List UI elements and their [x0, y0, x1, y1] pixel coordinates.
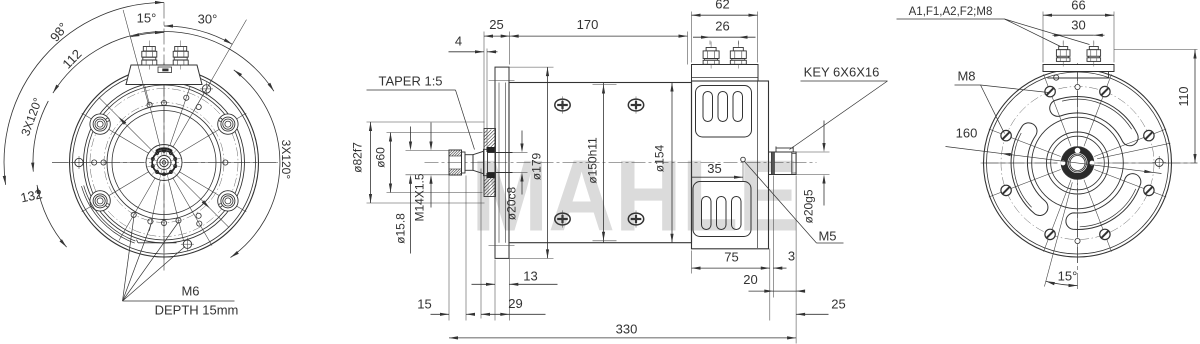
hub side notch right	[1090, 161, 1095, 166]
left view vertical centerline	[163, 3, 165, 271]
dim 25 right	[796, 313, 828, 315]
through-bolt bosses (4x)	[90, 114, 238, 211]
kidney slot top	[1050, 96, 1138, 145]
ext lines shaft dia	[406, 150, 449, 152]
dim 20	[749, 290, 774, 292]
shaft bore circle	[1069, 154, 1087, 172]
inner circle r27	[1051, 136, 1105, 190]
svg-text:TAPER 1:5: TAPER 1:5	[378, 74, 442, 89]
dim 4	[449, 51, 475, 53]
small holes right view	[1054, 75, 1081, 244]
extension lines bottom	[448, 176, 450, 321]
svg-text:ø20c8: ø20c8	[505, 187, 519, 221]
svg-text:ø154: ø154	[653, 145, 667, 173]
cross hole right horizontal	[1155, 159, 1163, 167]
M5 hole	[741, 157, 746, 162]
bracket slot mark	[162, 69, 168, 72]
left view terminal bracket	[126, 65, 202, 85]
shaft end chamfer band	[792, 154, 796, 174]
svg-text:M6: M6	[181, 284, 199, 299]
kidney top rib arc	[1062, 99, 1132, 129]
dim 15	[431, 313, 450, 315]
dimension arc 3X120 right	[231, 70, 280, 258]
dimension arc 15 deg	[130, 32, 164, 36]
dim dia20g5	[795, 151, 830, 153]
svg-text:330: 330	[616, 322, 638, 337]
ext lines 30	[1062, 41, 1064, 45]
svg-text:15°: 15°	[137, 11, 157, 26]
M8 leaders	[981, 85, 1005, 134]
right outer circle	[984, 69, 1172, 257]
bearing boss	[484, 129, 496, 197]
band extra arc outer	[82, 186, 135, 243]
svg-text:KEY 6X6X16: KEY 6X6X16	[804, 65, 880, 80]
terminal bolts (mid view)	[703, 42, 746, 69]
dim 110	[1114, 49, 1198, 51]
dim 26	[709, 41, 711, 45]
hub ring outline	[1061, 147, 1094, 180]
svg-text:26: 26	[715, 19, 729, 34]
svg-text:25: 25	[489, 17, 503, 32]
svg-text:15°: 15°	[1058, 269, 1078, 284]
middle view: motor side section	[351, 0, 1198, 344]
svg-text:ø60: ø60	[374, 147, 388, 168]
30 deg reference line	[194, 20, 247, 111]
bolt circle dash-dot left	[90, 89, 238, 237]
svg-text:170: 170	[577, 17, 599, 32]
hub inner white	[1069, 154, 1087, 172]
flange circle	[84, 82, 245, 243]
dim 330	[449, 337, 796, 339]
shaft through flange	[488, 152, 513, 154]
svg-text:M5: M5	[818, 229, 836, 244]
stator body outline	[509, 83, 692, 243]
svg-text:4: 4	[455, 34, 462, 49]
svg-text:A1,F1,A2,F2;M8: A1,F1,A2,F2;M8	[909, 6, 993, 18]
A1 underline	[897, 18, 1005, 20]
dim dia20c8	[521, 131, 523, 149]
shaft hex nut	[449, 150, 462, 175]
M5 leader	[745, 162, 817, 244]
dim dia82f7	[370, 122, 372, 203]
kidney left rib arc	[1014, 133, 1032, 207]
bearing black lower	[487, 173, 496, 178]
dim 30	[1053, 34, 1064, 36]
dim M14X1.5	[430, 123, 432, 142]
A1 leader to bolts	[1005, 19, 1061, 47]
hub knurled ring	[1065, 150, 1090, 175]
dim 13	[472, 283, 496, 285]
brush cover top slots	[703, 92, 743, 122]
M8 underline	[955, 84, 981, 86]
brush cover bottom slots	[702, 197, 742, 230]
dimension arc 30 deg	[164, 26, 232, 44]
dim 25 top	[484, 35, 510, 37]
bearing black upper	[487, 147, 496, 152]
svg-text:ø150h11: ø150h11	[586, 137, 600, 184]
shaft circle	[160, 158, 168, 166]
svg-text:35: 35	[707, 161, 721, 176]
nut facet lines	[449, 155, 462, 157]
hub outer circle	[146, 145, 182, 181]
middle horizontal centerline	[425, 162, 817, 164]
small holes on inner bolt circle	[92, 95, 228, 226]
key leader	[790, 81, 888, 150]
radial arrow lower-right	[202, 200, 210, 208]
svg-text:3: 3	[788, 249, 795, 264]
hole circle dash-dot left	[104, 103, 224, 223]
flange hole centerline bottom	[489, 245, 515, 247]
hub serrated ring	[152, 151, 176, 175]
dim dia15.8	[410, 127, 412, 142]
dimension arc 3X120 left	[33, 101, 48, 172]
right outer inner circle	[987, 72, 1169, 254]
terminal plate	[692, 65, 759, 82]
hub inner circle	[157, 156, 171, 170]
svg-text:ø82f7: ø82f7	[351, 142, 365, 173]
face inner circle	[112, 111, 216, 215]
svg-text:110: 110	[1177, 86, 1191, 106]
flange inner circle	[87, 85, 242, 240]
dim dia179	[510, 66, 554, 68]
ext lines dia20c8	[513, 152, 528, 154]
dimension arc 132	[37, 185, 67, 247]
key underline	[801, 80, 888, 82]
hub top dark segment	[156, 148, 172, 151]
extension lines top	[483, 32, 485, 149]
bolt circle dash-dot	[1001, 87, 1154, 240]
brush cover top	[696, 86, 752, 138]
taper underline	[367, 89, 456, 91]
svg-text:75: 75	[724, 250, 738, 265]
bracket slot	[158, 67, 172, 73]
right view horizontal centerline	[983, 162, 1198, 164]
M6 underline	[123, 300, 235, 302]
dia160 diameter line	[946, 147, 1162, 174]
right terminal bolt	[173, 41, 188, 70]
hub top notch	[1075, 148, 1081, 154]
output shaft	[769, 152, 797, 175]
M6 tapped holes with center cross (3x120)	[73, 82, 214, 250]
svg-text:ø20g5: ø20g5	[802, 189, 816, 223]
dimension arc 98 deg	[4, 3, 164, 185]
svg-text:13: 13	[523, 269, 537, 284]
svg-text:20: 20	[743, 272, 757, 287]
dim dia150h11	[603, 83, 605, 243]
shaft circlip	[771, 152, 774, 175]
M8 screws (8x)	[1001, 86, 1154, 239]
flange hole centerline top	[489, 80, 515, 82]
taper leader	[456, 90, 475, 150]
housing step line	[757, 81, 759, 248]
thread washer	[462, 152, 466, 173]
right view dimensions	[897, 0, 1198, 287]
dim 62	[692, 14, 758, 16]
dim 15 deg bottom	[1046, 281, 1078, 285]
threaded shaft section	[465, 155, 473, 171]
kidney slot left	[1011, 123, 1048, 216]
key end ticks	[775, 146, 777, 148]
svg-text:ø15.8: ø15.8	[394, 213, 408, 244]
bore inner circle	[1070, 156, 1085, 171]
hub serration bumps	[151, 149, 176, 176]
right view radial centerlines	[981, 63, 1198, 287]
svg-text:M14X1.5: M14X1.5	[413, 173, 427, 221]
MAHLE watermark	[471, 139, 800, 253]
left terminal bolt	[142, 41, 157, 70]
flange plate	[495, 67, 509, 258]
right view vertical centerline	[1077, 65, 1079, 292]
kidney bottom rib arc	[1080, 189, 1136, 227]
face circle	[107, 106, 221, 220]
band seam step	[137, 240, 139, 243]
M6 leader lines	[123, 216, 135, 301]
svg-text:MAHLE: MAHLE	[471, 139, 800, 253]
outer body circle	[70, 68, 259, 257]
shaft collar	[484, 149, 488, 175]
dimension arc 112	[53, 32, 274, 94]
dim dia154	[671, 83, 673, 243]
shaft key	[776, 148, 793, 152]
dim dia60	[390, 133, 392, 193]
outer body inner circle	[73, 71, 256, 254]
right terminal plate lower band	[1048, 72, 1109, 79]
middle view dimensions	[351, 0, 888, 344]
M5 underline	[817, 242, 844, 244]
svg-text:62: 62	[715, 0, 729, 12]
taper section	[473, 151, 484, 173]
svg-text:25: 25	[831, 297, 845, 312]
svg-text:DEPTH 15mm: DEPTH 15mm	[155, 303, 239, 318]
brush cover bottom	[693, 182, 751, 237]
radial arrow upper-left	[118, 117, 126, 125]
hub spokes	[147, 146, 181, 180]
svg-text:15: 15	[417, 297, 431, 312]
dim 66	[1043, 14, 1114, 16]
body screws	[555, 96, 644, 227]
svg-text:M8: M8	[957, 69, 975, 84]
left view horizontal centerline	[52, 162, 278, 164]
dim 75	[692, 267, 770, 269]
kidney slot bottom	[1066, 174, 1141, 230]
dim 29	[481, 313, 509, 315]
left view radial centerlines	[52, 63, 278, 263]
band extra arc inner	[84, 186, 136, 242]
15 deg reference line	[123, 10, 148, 105]
dim 35	[742, 162, 744, 182]
flange inner edge lines	[498, 83, 500, 243]
dim 3	[773, 267, 786, 269]
left view: motor end elevation	[52, 3, 278, 271]
right terminal plate	[1043, 65, 1114, 72]
dim 170	[510, 35, 688, 37]
inner circle r31	[1047, 132, 1109, 194]
band seam chord	[138, 242, 177, 244]
ext lines 66	[1042, 12, 1044, 63]
svg-text:30°: 30°	[198, 12, 218, 27]
shaft center hole	[162, 161, 166, 165]
hub side notch left	[1061, 161, 1066, 166]
brush end housing	[692, 81, 769, 249]
right terminal bolts	[1056, 42, 1100, 67]
svg-text:ø179: ø179	[530, 153, 544, 181]
svg-text:29: 29	[508, 296, 522, 311]
svg-text:3X120°: 3X120°	[279, 140, 293, 180]
shaft end ring	[791, 152, 793, 175]
svg-text:160: 160	[956, 126, 978, 141]
right view: drive end elevation	[981, 42, 1198, 293]
inner circle r46	[1032, 117, 1124, 209]
svg-text:30: 30	[1071, 18, 1085, 33]
svg-text:66: 66	[1071, 0, 1085, 13]
